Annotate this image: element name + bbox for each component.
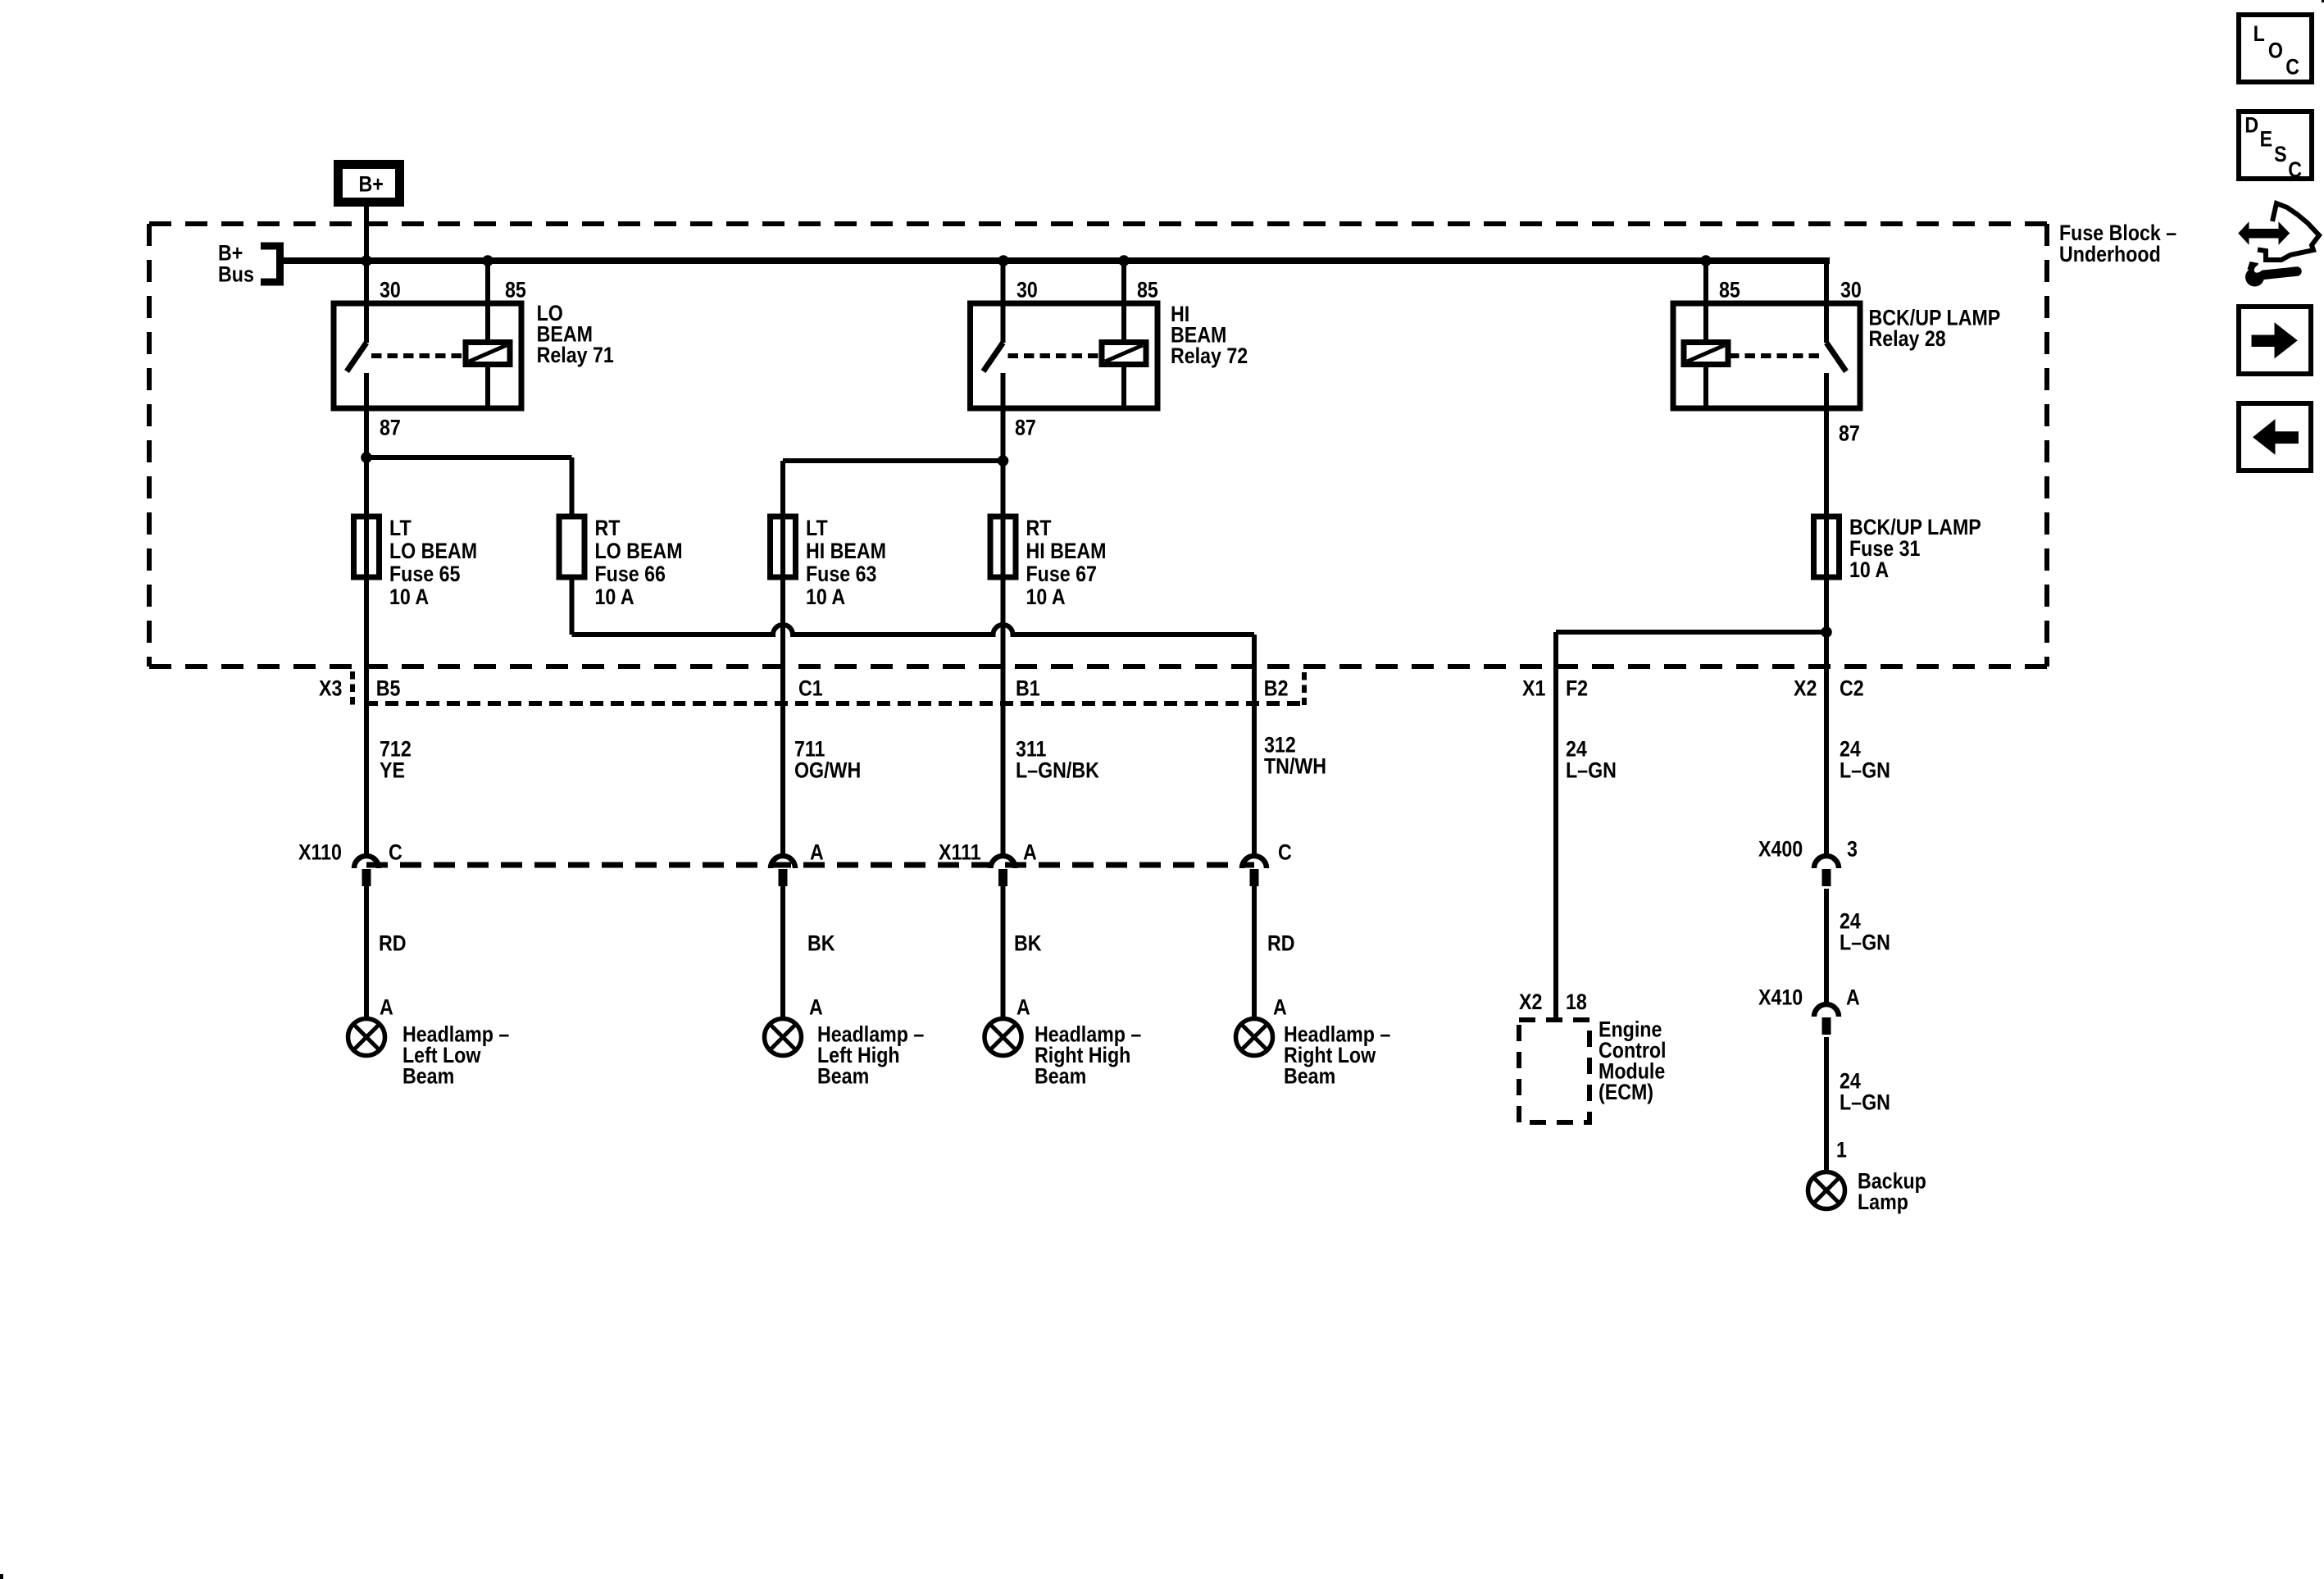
- svg-text:B2: B2: [1264, 676, 1289, 701]
- svg-text:L–GN: L–GN: [1840, 931, 1890, 955]
- connector X110/X111 dashed row: [366, 862, 1254, 868]
- junction on bus at x=2081: [1700, 255, 1712, 266]
- svg-text:D: D: [2244, 113, 2258, 138]
- wire branch to fuse 66: [366, 455, 572, 460]
- wire Relay71 pin87 stub: [364, 373, 369, 408]
- connector symbol X111: [991, 856, 1016, 868]
- svg-text:L: L: [2254, 22, 2265, 47]
- svg-text:18: 18: [1566, 990, 1587, 1014]
- svg-text:HI BEAM: HI BEAM: [806, 539, 886, 563]
- svg-text:87: 87: [1839, 421, 1860, 446]
- svg-text:Fuse 63: Fuse 63: [806, 562, 876, 586]
- svg-text:C: C: [1278, 840, 1292, 865]
- svg-text:L–GN: L–GN: [1566, 758, 1617, 783]
- wire F2 down to ECM: [1553, 632, 1558, 1020]
- wire col right-high (87 to fuse 67 to X111): [1001, 373, 1006, 854]
- svg-text:10 A: 10 A: [1849, 557, 1889, 582]
- relay Relay72 switch: [1001, 303, 1006, 343]
- svg-text:A: A: [1846, 985, 1860, 1010]
- svg-text:L–GN/BK: L–GN/BK: [1016, 758, 1099, 783]
- svg-text:X111: X111: [939, 840, 981, 865]
- svg-text:1: 1: [1836, 1138, 1847, 1163]
- svg-text:(ECM): (ECM): [1599, 1080, 1653, 1104]
- relay Relay28 switch: [1824, 303, 1829, 343]
- wire connector to headlamp x=955: [780, 886, 785, 1019]
- wire Relay71 pin30 from bus: [364, 261, 369, 303]
- B+ Bus bracket: [261, 243, 284, 250]
- wire branch to fuse 63: [783, 458, 1003, 463]
- svg-text:Fuse 67: Fuse 67: [1026, 562, 1097, 586]
- svg-text:B1: B1: [1016, 676, 1040, 701]
- wire Relay28 pin87 stub: [1824, 373, 1829, 408]
- svg-text:X3: X3: [319, 676, 342, 701]
- connector X3 separator left: [350, 671, 355, 706]
- svg-text:Beam: Beam: [817, 1064, 869, 1089]
- svg-text:85: 85: [1719, 278, 1740, 303]
- connector X3 separator right: [1302, 672, 1307, 705]
- svg-text:F2: F2: [1566, 676, 1588, 701]
- svg-text:BK: BK: [1014, 931, 1042, 956]
- wire Relay72 pin85 from bus: [1121, 261, 1126, 303]
- svg-text:HI BEAM: HI BEAM: [1026, 539, 1107, 563]
- svg-text:10 A: 10 A: [595, 585, 634, 609]
- fuse block dashed box border: [149, 221, 2047, 226]
- wire connector to headlamp x=1223.5: [1001, 886, 1006, 1019]
- svg-text:X2: X2: [1519, 990, 1542, 1014]
- relay Relay71 box: [334, 303, 521, 408]
- lamp Headlamp Right High Beam: [985, 1019, 1021, 1056]
- relay Relay28 coil: [1684, 343, 1728, 365]
- svg-text:Bus: Bus: [218, 262, 254, 287]
- relay Relay72 coil: [1102, 343, 1146, 365]
- svg-text:RD: RD: [379, 931, 407, 956]
- icon arrow left box: [2239, 403, 2311, 471]
- svg-text:30: 30: [1016, 278, 1038, 303]
- lamp Headlamp Left High Beam: [765, 1019, 802, 1056]
- junction relay71-87 branch: [361, 452, 372, 463]
- svg-text:B5: B5: [376, 676, 401, 701]
- wire connector to headlamp x=447: [364, 886, 369, 1019]
- junction on bus at x=447: [361, 255, 372, 266]
- svg-text:Beam: Beam: [1035, 1064, 1086, 1089]
- svg-text:A: A: [1273, 995, 1287, 1020]
- svg-text:LT: LT: [389, 516, 412, 540]
- fuse F66 RT LO BEAM: [559, 516, 584, 577]
- svg-text:30: 30: [380, 278, 401, 303]
- svg-text:X2: X2: [1794, 676, 1817, 701]
- svg-text:87: 87: [1015, 416, 1036, 440]
- relay Relay71 link dashed: [371, 353, 465, 358]
- fuse F31 BCK/UP LAMP: [1814, 516, 1840, 577]
- wire X410 to backup lamp: [1824, 1037, 1829, 1172]
- junction on bus at x=1371: [1118, 255, 1130, 266]
- wire B+ feed down to bus: [364, 207, 369, 261]
- connector symbol X110: [354, 856, 379, 868]
- connector symbol X111-C: [1242, 856, 1267, 868]
- svg-text:Beam: Beam: [1284, 1064, 1335, 1089]
- icon DESC box: [2239, 111, 2312, 179]
- junction relay72-87 branch: [998, 455, 1009, 466]
- svg-text:X410: X410: [1758, 985, 1803, 1010]
- svg-text:S: S: [2274, 142, 2286, 166]
- svg-text:B+: B+: [359, 172, 384, 197]
- svg-text:87: 87: [380, 416, 401, 440]
- wire B+ bus: [280, 257, 1831, 264]
- wrench: [2245, 268, 2264, 287]
- relay Relay72 link dashed: [1008, 353, 1102, 358]
- svg-text:L–GN: L–GN: [1840, 1090, 1890, 1115]
- page corner marks: [0, 1574, 3, 1579]
- svg-text:E: E: [2260, 127, 2272, 152]
- svg-text:X400: X400: [1758, 837, 1803, 862]
- junction on bus at x=1224: [998, 255, 1009, 266]
- svg-text:10 A: 10 A: [389, 585, 429, 609]
- svg-text:TN/WH: TN/WH: [1264, 754, 1326, 779]
- svg-text:L–GN: L–GN: [1840, 758, 1890, 783]
- svg-text:RT: RT: [1026, 516, 1053, 540]
- svg-text:YE: YE: [380, 758, 405, 783]
- svg-text:LT: LT: [806, 516, 828, 540]
- fuse F67 RT HI BEAM: [990, 516, 1016, 577]
- svg-text:3: 3: [1847, 837, 1858, 862]
- wire down to fuse 66: [570, 457, 575, 516]
- svg-text:C: C: [2285, 55, 2299, 80]
- svg-text:10 A: 10 A: [806, 585, 845, 609]
- wire Relay72 pin87 stub: [1001, 373, 1006, 408]
- connector symbol X410: [1814, 1004, 1839, 1017]
- wire col left-high (fuse 63 down): [780, 461, 785, 854]
- connector symbol X400: [1814, 856, 1839, 868]
- svg-text:Underhood: Underhood: [2059, 242, 2161, 266]
- junction on bus at x=595: [482, 255, 493, 266]
- ECM dashed box: [1519, 1020, 1590, 1122]
- svg-text:Beam: Beam: [402, 1064, 454, 1089]
- svg-text:Lamp: Lamp: [1858, 1190, 1908, 1214]
- relay Relay28 box: [1673, 303, 1860, 408]
- fuse F63 LT HI BEAM: [771, 516, 796, 577]
- svg-text:A: A: [380, 995, 393, 1020]
- wire branch to ECM F2: [1556, 630, 1823, 635]
- svg-text:RT: RT: [595, 516, 621, 540]
- wire cross-run fuse66 to right-low with hops: [572, 625, 1255, 635]
- svg-text:BK: BK: [807, 931, 835, 956]
- svg-text:30: 30: [1840, 278, 1862, 303]
- junction backup branch: [1821, 626, 1832, 638]
- svg-text:A: A: [1016, 995, 1030, 1020]
- relay Relay71 switch: [364, 303, 369, 343]
- svg-text:C1: C1: [798, 676, 823, 701]
- relay Relay28 link dashed: [1729, 353, 1821, 358]
- svg-text:X1: X1: [1522, 676, 1545, 701]
- wire col left-low (87 to fuse 65 to X110): [364, 373, 369, 854]
- wire X400 to X410: [1824, 889, 1829, 1003]
- lamp Headlamp Right Low Beam: [1236, 1019, 1273, 1056]
- svg-text:Relay 71: Relay 71: [537, 343, 614, 367]
- svg-text:10 A: 10 A: [1026, 585, 1066, 609]
- svg-text:Fuse 65: Fuse 65: [389, 562, 460, 586]
- svg-text:Fuse 66: Fuse 66: [595, 562, 666, 586]
- svg-text:O: O: [2268, 39, 2283, 63]
- svg-text:LO BEAM: LO BEAM: [389, 539, 477, 563]
- connector X3 dotted line: [365, 701, 1305, 706]
- wire col backup (87 to fuse 31 down): [1824, 373, 1829, 854]
- connector symbol X110-A: [771, 856, 795, 868]
- svg-text:C: C: [389, 840, 402, 865]
- svg-text:A: A: [1023, 840, 1037, 865]
- svg-text:OG/WH: OG/WH: [794, 758, 861, 783]
- svg-text:85: 85: [1137, 278, 1158, 303]
- relay Relay71 coil: [466, 343, 510, 365]
- fuse F65 LT LO BEAM: [354, 516, 380, 577]
- relay Relay72 box: [971, 303, 1158, 408]
- wire Relay72 pin30 from bus: [1001, 261, 1006, 303]
- wire col right-low down: [1252, 635, 1257, 854]
- svg-text:C: C: [2288, 158, 2302, 183]
- wire connector to headlamp x=1530: [1252, 886, 1257, 1019]
- lamp Backup Lamp: [1808, 1172, 1845, 1209]
- icon LOC box: [2239, 15, 2312, 82]
- wire Relay28 pin85 from bus: [1703, 261, 1708, 303]
- B+ power symbol box: [339, 165, 400, 202]
- lamp Headlamp Left Low Beam: [348, 1019, 385, 1056]
- svg-text:A: A: [810, 840, 824, 865]
- wire Relay71 pin85 from bus: [485, 261, 490, 303]
- wire Relay28 pin30 from bus: [1824, 261, 1829, 303]
- wire fuse 66 to cross-run: [570, 577, 575, 635]
- svg-text:Relay 28: Relay 28: [1869, 326, 1946, 351]
- svg-text:A: A: [809, 995, 823, 1020]
- icon vehicle with wrench: [2239, 223, 2249, 244]
- svg-text:C2: C2: [1840, 676, 1864, 701]
- svg-text:85: 85: [505, 278, 526, 303]
- icon arrow right box: [2239, 307, 2311, 374]
- svg-text:X110: X110: [298, 840, 342, 865]
- svg-text:RD: RD: [1267, 931, 1295, 956]
- svg-text:LO BEAM: LO BEAM: [595, 539, 683, 563]
- svg-text:Relay 72: Relay 72: [1171, 344, 1248, 368]
